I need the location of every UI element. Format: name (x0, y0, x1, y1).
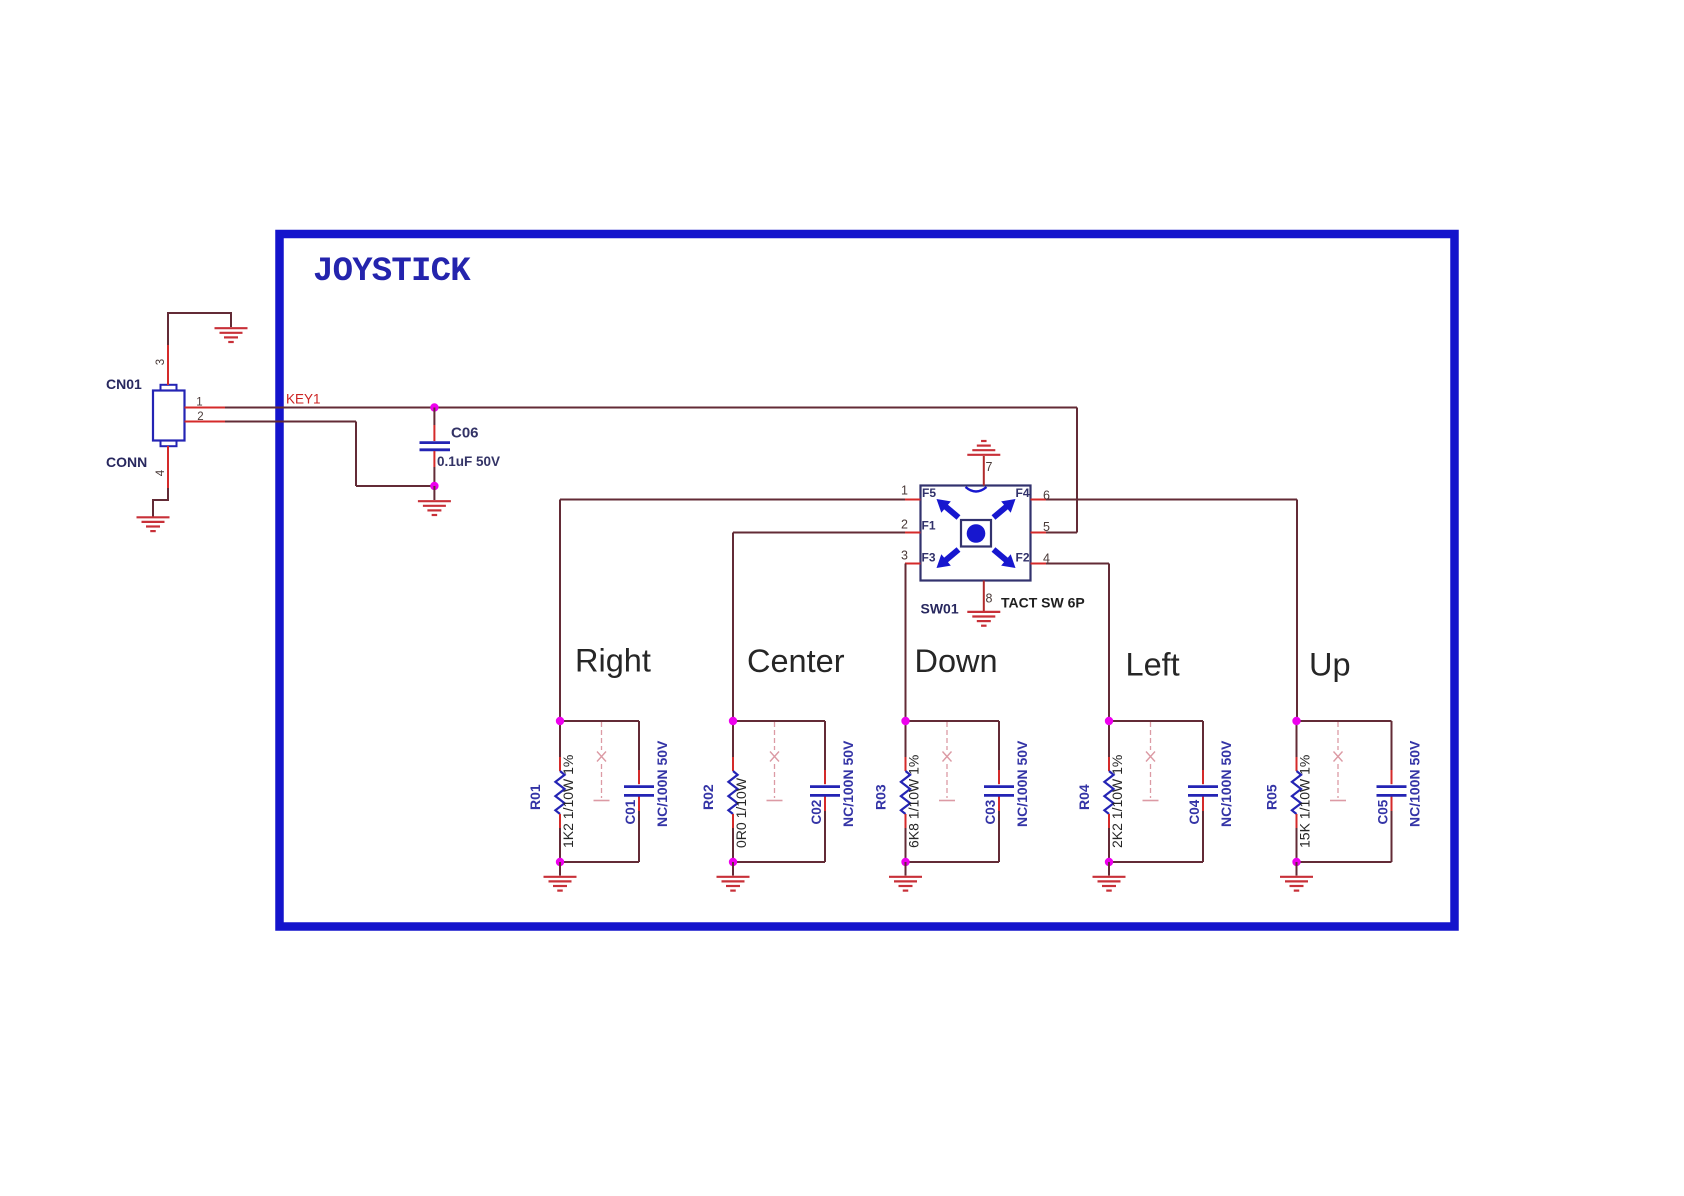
svg-text:C05: C05 (1376, 799, 1391, 824)
svg-text:JOYSTICK: JOYSTICK (313, 253, 471, 291)
svg-text:NC/100N 50V: NC/100N 50V (1407, 740, 1423, 827)
svg-text:0R0 1/10W: 0R0 1/10W (733, 777, 749, 848)
svg-text:7: 7 (986, 460, 993, 474)
svg-text:NC/100N 50V: NC/100N 50V (840, 740, 856, 827)
svg-text:C04: C04 (1187, 799, 1202, 824)
svg-text:NC/100N 50V: NC/100N 50V (654, 740, 670, 827)
svg-text:0.1uF 50V: 0.1uF 50V (437, 454, 500, 469)
svg-text:R05: R05 (1264, 784, 1280, 810)
svg-text:3: 3 (155, 359, 167, 365)
svg-text:8: 8 (986, 592, 993, 606)
svg-text:C06: C06 (451, 425, 479, 442)
svg-text:Down: Down (915, 643, 998, 679)
svg-text:F1: F1 (922, 519, 936, 533)
svg-text:R04: R04 (1076, 784, 1092, 810)
svg-text:Up: Up (1309, 647, 1351, 683)
svg-text:F5: F5 (922, 486, 936, 500)
svg-text:CONN: CONN (106, 454, 147, 470)
svg-text:2: 2 (901, 518, 908, 532)
svg-text:F2: F2 (1016, 551, 1030, 565)
svg-text:C02: C02 (809, 800, 824, 825)
svg-text:2K2 1/10W 1%: 2K2 1/10W 1% (1109, 755, 1125, 848)
svg-text:1: 1 (196, 397, 202, 409)
svg-text:1: 1 (901, 484, 908, 498)
svg-text:SW01: SW01 (921, 601, 959, 617)
svg-text:R01: R01 (527, 784, 543, 810)
svg-text:C03: C03 (983, 799, 998, 824)
svg-text:R03: R03 (873, 784, 889, 810)
svg-text:2: 2 (197, 411, 203, 423)
svg-text:F4: F4 (1016, 486, 1030, 500)
svg-text:Center: Center (747, 643, 845, 679)
svg-text:15K 1/10W 1%: 15K 1/10W 1% (1297, 755, 1313, 848)
svg-text:NC/100N 50V: NC/100N 50V (1218, 740, 1234, 827)
svg-text:Left: Left (1126, 647, 1180, 683)
svg-text:Right: Right (575, 643, 651, 679)
svg-text:C01: C01 (623, 799, 638, 824)
svg-text:R02: R02 (700, 784, 716, 810)
svg-text:KEY1: KEY1 (286, 392, 321, 407)
svg-text:1K2 1/10W 1%: 1K2 1/10W 1% (560, 755, 576, 848)
svg-text:3: 3 (901, 549, 908, 563)
svg-text:CN01: CN01 (106, 376, 142, 392)
svg-text:4: 4 (155, 469, 167, 476)
svg-text:NC/100N 50V: NC/100N 50V (1014, 740, 1030, 827)
svg-text:6K8 1/10W 1%: 6K8 1/10W 1% (906, 755, 922, 848)
svg-text:F3: F3 (922, 551, 936, 565)
svg-text:TACT SW 6P: TACT SW 6P (1001, 595, 1085, 611)
